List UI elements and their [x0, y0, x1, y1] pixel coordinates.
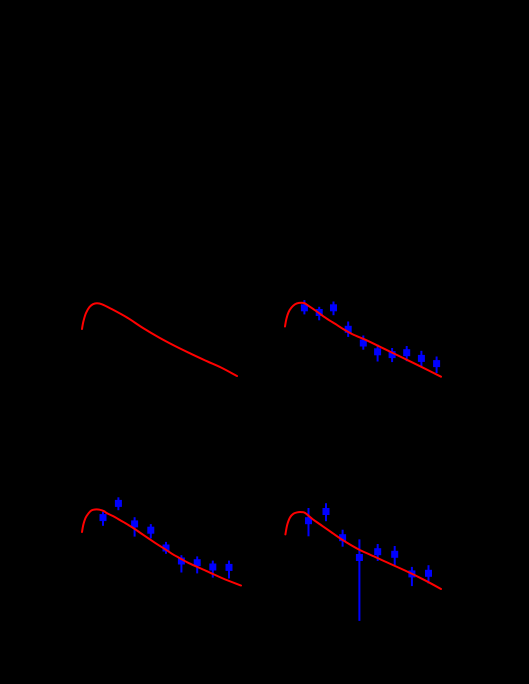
top-right data point 7 error bar [391, 348, 393, 362]
top-right data point 7 marker [389, 351, 396, 358]
bottom-right data point 8 error bar [428, 565, 430, 583]
top-right data point 10 error bar [436, 357, 438, 374]
bottom-right data point 3 marker [339, 534, 346, 541]
bottom-right data point 3 error bar [342, 530, 344, 547]
top-right data point 9 error bar [420, 351, 422, 367]
top-right data point 6 marker [374, 348, 381, 355]
bottom-left data point 5 marker [163, 545, 170, 552]
bottom-left data point 7 marker [194, 559, 201, 566]
bottom-left pad: red fit curve [82, 509, 241, 585]
top-right data point 3 error bar [333, 302, 335, 316]
bottom-left data point 1 error bar [102, 512, 104, 526]
bottom-left data point 3 error bar [134, 517, 136, 536]
top-right data point 8 error bar [406, 346, 408, 361]
bottom-left data point 8 marker [209, 564, 216, 571]
bottom-right data point 7 error bar [411, 567, 413, 586]
top-right data point 10 marker [433, 360, 440, 367]
bottom-right data point 1 marker [305, 517, 312, 524]
top-right data point 2 marker [316, 309, 323, 316]
top-right data point 2 error bar [318, 307, 320, 321]
bottom-left data point 2 marker [115, 500, 122, 507]
bottom-left data point 9 marker [226, 564, 233, 571]
top-right data point 5 error bar [362, 336, 364, 350]
bottom-right data point 1 error bar [308, 508, 310, 536]
top-right data point 3 marker [330, 304, 337, 311]
top-right data point 8 marker [403, 349, 410, 356]
bottom-left data point 6 error bar [180, 555, 182, 572]
bottom-left data point 6 marker [178, 558, 185, 565]
bottom-right data point 2 marker [323, 508, 330, 515]
bottom-right data point 6 error bar [394, 546, 396, 565]
bottom-left data point 8 error bar [212, 561, 214, 578]
bottom-left data point 4 marker [147, 527, 154, 534]
bottom-left data point 2 error bar [117, 497, 119, 510]
bottom-right data point 5 marker [374, 548, 381, 555]
bottom-left data point 4 error bar [150, 524, 152, 538]
top-right data point 1 error bar [303, 300, 305, 314]
bottom-left data point 1 marker [100, 514, 107, 521]
top-right data point 6 error bar [377, 345, 379, 362]
top-right data point 4 error bar [347, 322, 349, 337]
top-right data point 9 marker [418, 355, 425, 362]
top-left pad: red fit curve [82, 303, 237, 376]
bottom-left data point 7 error bar [196, 556, 198, 573]
bottom-right data point 5 error bar [377, 544, 379, 561]
top-right pad: red fit curve [285, 303, 441, 377]
top-right data point 1 marker [301, 304, 308, 311]
bottom-right data point 4 error bar [358, 539, 360, 621]
bottom-left data point 9 error bar [228, 561, 230, 579]
bottom-right data point 7 marker [408, 570, 415, 577]
bottom-right data point 2 error bar [325, 503, 327, 521]
bottom-right data point 6 marker [391, 551, 398, 558]
bottom-right data point 8 marker [425, 570, 432, 577]
bottom-left data point 5 error bar [165, 542, 167, 554]
bottom-right pad: red fit curve [285, 512, 441, 589]
bottom-left data point 3 marker [131, 520, 138, 527]
bottom-right data point 4 marker [356, 554, 363, 561]
top-right data point 4 marker [345, 326, 352, 333]
top-right data point 5 marker [360, 340, 367, 347]
